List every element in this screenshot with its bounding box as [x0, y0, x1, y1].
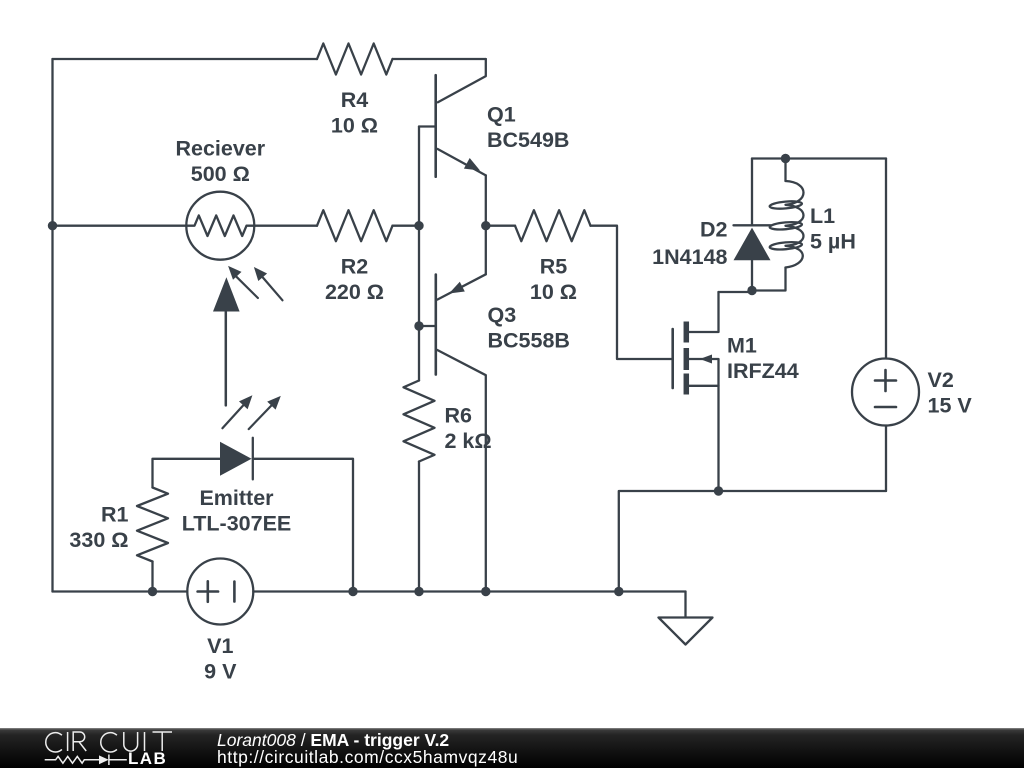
- node R6 bottom junction: [414, 587, 423, 596]
- light arrow into receiver 1: [228, 266, 258, 298]
- svg-text:R4: R4: [341, 88, 369, 112]
- light arrow from LED 1: [222, 395, 252, 428]
- wire LED to right leg: [253, 459, 353, 592]
- wire R6 bottom lead: [418, 462, 420, 592]
- mosfet M1 body arrow: [700, 355, 712, 364]
- light arrow from LED 2: [249, 396, 281, 429]
- transistor Q1 bar: [434, 75, 437, 177]
- transistor Q3 emitter lead: [485, 226, 487, 275]
- svg-text:10 Ω: 10 Ω: [530, 280, 577, 304]
- transistor Q3 emitter: [437, 274, 486, 299]
- wire top rail D2 L1 V2: [752, 157, 886, 159]
- wire left rail: [51, 59, 53, 592]
- svg-text:500 Ω: 500 Ω: [191, 162, 250, 186]
- light beam arrow LED to receiver: [213, 277, 240, 405]
- node L1 top junction: [781, 154, 790, 163]
- node Q3 base junction: [414, 321, 423, 330]
- wire top rail from left corner to R4: [53, 58, 318, 60]
- diode D2 triangle: [734, 228, 771, 261]
- svg-text:R6: R6: [445, 404, 473, 428]
- resistor R5: [515, 210, 591, 241]
- svg-text:330 Ω: 330 Ω: [69, 528, 128, 552]
- svg-text:Q1: Q1: [487, 103, 516, 127]
- circuitlab logo LAB: [128, 749, 167, 768]
- svg-text:IRFZ44: IRFZ44: [727, 359, 799, 383]
- mosfet M1 source lead: [687, 386, 719, 491]
- inductor L1 bottom lead: [752, 268, 786, 291]
- wire base rail Q1-Q3-R6: [418, 127, 420, 381]
- voltage source V2 body: [852, 359, 919, 426]
- wire R4 to Q1 collector: [393, 58, 486, 60]
- LED Emitter triangle: [220, 442, 252, 476]
- voltage source V2 minus sign: [875, 406, 896, 409]
- svg-text:BC558B: BC558B: [488, 329, 570, 353]
- inductor L1 loop 2: [769, 221, 802, 231]
- transistor Q3 collector: [437, 350, 486, 592]
- svg-text:1N4148: 1N4148: [652, 245, 727, 269]
- wire R1 bottom lead: [151, 562, 153, 592]
- svg-text:5 µH: 5 µH: [810, 229, 856, 253]
- resistor R4: [317, 44, 393, 75]
- mosfet M1 gate bar: [671, 329, 674, 388]
- wire row to photoresistor: [53, 225, 187, 227]
- svg-text:10 Ω: 10 Ω: [331, 114, 378, 138]
- svg-text:LTL-307EE: LTL-307EE: [182, 512, 292, 536]
- svg-text:9 V: 9 V: [204, 660, 237, 684]
- wire LED row left corner: [153, 459, 221, 488]
- svg-text:Q3: Q3: [488, 303, 517, 327]
- svg-text:L1: L1: [810, 204, 835, 228]
- inductor L1 loop 3: [769, 241, 802, 251]
- circuitlab logo CIRCUIT letters: [0, 726, 200, 768]
- svg-text:V2: V2: [928, 368, 954, 392]
- svg-text:R5: R5: [540, 254, 568, 278]
- wire drain to flyback node: [719, 291, 753, 293]
- wire node to R5: [486, 225, 515, 227]
- svg-text:R1: R1: [101, 503, 129, 527]
- voltage source V1 minus bar: [233, 582, 236, 602]
- transistor Q1 base tap: [419, 125, 436, 127]
- voltage source V2 plus sign: [875, 370, 896, 391]
- wire R2 to node: [393, 225, 420, 227]
- wire bottom rail right of V1: [253, 590, 685, 592]
- node M1 source junction: [714, 486, 723, 495]
- ground symbol: [659, 592, 713, 645]
- LED Emitter cathode bar: [252, 438, 254, 480]
- wire Q1 emitter lead: [485, 175, 487, 225]
- svg-text:R2: R2: [341, 254, 369, 278]
- svg-text:BC549B: BC549B: [487, 128, 569, 152]
- resistor R1: [137, 488, 168, 562]
- node R2 base rail junction: [414, 221, 423, 230]
- svg-text:Emitter: Emitter: [199, 486, 274, 510]
- transistor Q3 emitter arrow: [449, 282, 465, 294]
- voltage source V1 plus sign: [198, 581, 219, 602]
- svg-text:2 kΩ: 2 kΩ: [445, 429, 492, 453]
- mosfet M1 body lead: [687, 359, 719, 386]
- svg-text:M1: M1: [727, 334, 757, 358]
- wire V2 bottom lead: [885, 426, 887, 492]
- transistor Q1 emitter arrow: [464, 158, 480, 171]
- wire source rail: [619, 491, 886, 592]
- photoresistor Reciever body: [186, 192, 254, 260]
- inductor L1 loop 1: [769, 200, 802, 210]
- svg-text:220 Ω: 220 Ω: [325, 280, 384, 304]
- node flyback bottom junction: [747, 286, 756, 295]
- wire D2 bottom lead: [751, 260, 753, 290]
- transistor Q1 collector: [438, 59, 486, 102]
- node left rail row junction: [48, 221, 57, 230]
- diode D2 cathode bar: [734, 224, 771, 226]
- resistor R2: [317, 210, 393, 241]
- wire bottom rail left of V1: [53, 590, 188, 592]
- photoresistor Reciever zigzag: [187, 215, 255, 236]
- inductor L1 coil: [786, 181, 804, 268]
- footer bar: [0, 728, 1024, 768]
- svg-text:V1: V1: [207, 634, 233, 658]
- wire R5 to MOSFET gate: [591, 226, 673, 359]
- footer title line: [217, 730, 449, 751]
- node R1 bottom junction: [148, 587, 157, 596]
- resistor R6: [404, 381, 435, 462]
- transistor Q1 emitter: [437, 149, 485, 176]
- transistor Q3 base tap: [419, 325, 436, 327]
- wire V2 top lead: [885, 159, 887, 359]
- wire photoresistor to R2: [254, 225, 317, 227]
- node source rail bottom junction: [614, 587, 623, 596]
- logo resistor-diode symbol row: [45, 756, 99, 763]
- mosfet M1 channel segments: [684, 322, 690, 395]
- mosfet M1 drain lead: [687, 292, 719, 332]
- node LED leg bottom junction: [348, 587, 357, 596]
- transistor Q3 bar: [434, 275, 437, 375]
- svg-text:15 V: 15 V: [928, 394, 973, 418]
- inductor L1 top lead: [784, 159, 786, 182]
- node Q1 emitter R5 junction: [481, 221, 490, 230]
- node Q3 collector bottom junction: [481, 587, 490, 596]
- wire D2 top lead: [751, 159, 753, 226]
- svg-text:Reciever: Reciever: [175, 137, 265, 161]
- svg-text:D2: D2: [700, 218, 728, 242]
- voltage source V1 body: [187, 559, 253, 625]
- footer url line: [217, 747, 518, 768]
- light arrow into receiver 2: [254, 267, 283, 300]
